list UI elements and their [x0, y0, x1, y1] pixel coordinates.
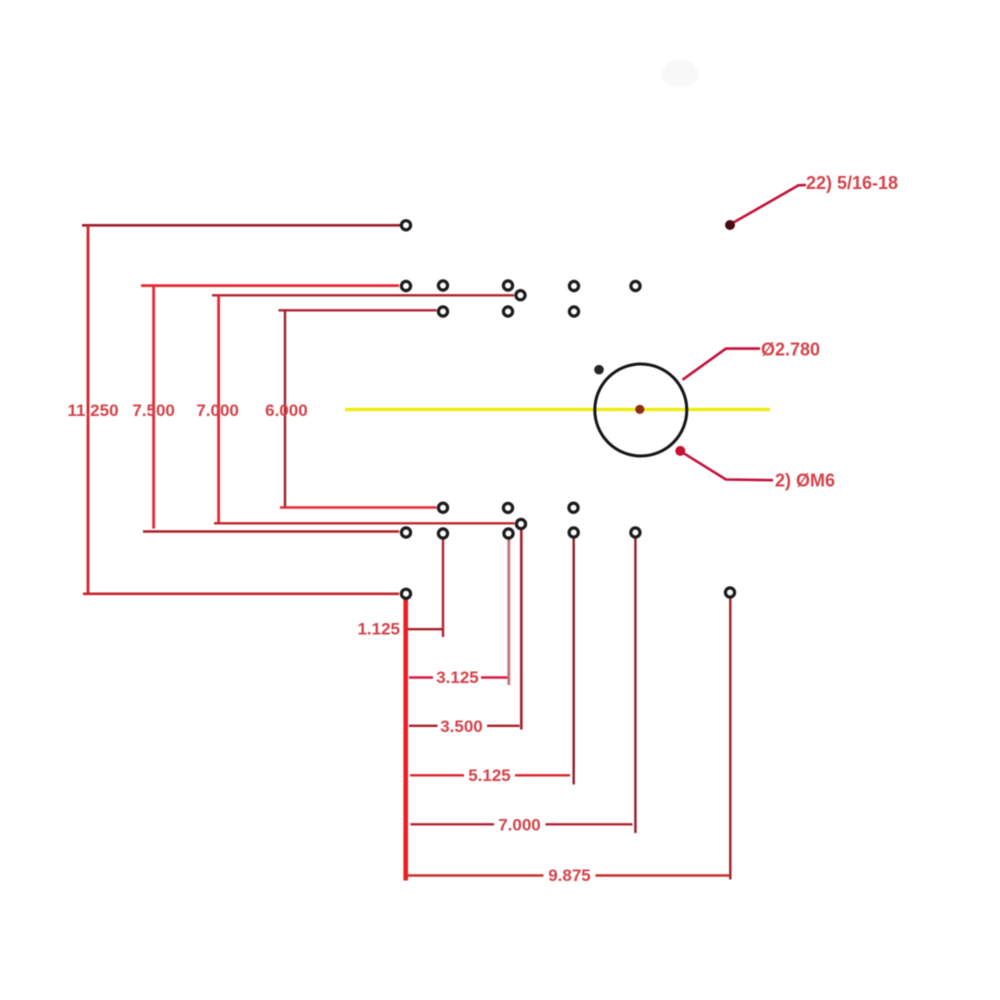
svg-text:2) ØM6: 2) ØM6 [775, 471, 835, 491]
bore center dot [635, 405, 644, 414]
dimension 5.125 left segment wire [410, 774, 464, 776]
svg-text:7.500: 7.500 [132, 401, 175, 420]
hole circle row E x508 [503, 503, 512, 512]
dimension 3.125 left segment wire [409, 676, 433, 678]
leader for 22) 5/16-18 [734, 185, 807, 223]
dimension 7.500 bottom horizontal wire [143, 530, 399, 533]
faint smudge top center [662, 60, 698, 88]
hole circle row F x573 [569, 528, 578, 537]
dimension 7.000-left top horizontal wire [212, 294, 514, 296]
hole circle row D x508 [503, 307, 512, 316]
dimension 11.250 vertical wire [87, 225, 90, 594]
bore circle (Ø2.780) [595, 364, 687, 456]
hole circle row F x443 [438, 529, 447, 538]
svg-text:7.000: 7.000 [196, 401, 239, 420]
dimension 7.000 left segment wire [411, 823, 495, 825]
hole circle row B x443 [438, 281, 447, 290]
chain vertical x730 wire [729, 598, 731, 880]
hole circle row F x406 [401, 528, 410, 537]
dimension 6.000 bottom horizontal wire [280, 506, 437, 509]
dimension 1.125 wire [408, 628, 443, 630]
dimension 7.000-left bottom horizontal wire [214, 522, 515, 524]
hole circle row E x443 [438, 503, 447, 512]
chain vertical x521 wire [520, 530, 523, 730]
hole circle row B x406 [401, 281, 410, 290]
yellow centerline [345, 408, 770, 411]
svg-text:3.125: 3.125 [436, 668, 479, 687]
hole circle 7.000 top end [516, 291, 525, 300]
dimension 7.000 right segment wire [546, 823, 633, 825]
hole circle 11.250 top end [401, 221, 410, 230]
svg-text:1.125: 1.125 [357, 620, 400, 639]
dimension 7.500 vertical wire [152, 286, 155, 529]
dimension 9.875 left segment wire [407, 874, 544, 876]
hole circle row F x635 [631, 528, 640, 537]
hole circle row E x573 [569, 503, 578, 512]
dimension 6.000 vertical wire [284, 310, 286, 507]
dimension 7.500 top horizontal wire [141, 284, 399, 287]
hole circle row B x508 [503, 281, 512, 290]
dimension 3.500 right segment wire [487, 725, 520, 727]
svg-text:11.250: 11.250 [67, 401, 118, 420]
svg-text:Ø2.780: Ø2.780 [761, 340, 820, 360]
dimension 6.000 top horizontal wire [279, 309, 437, 311]
hole circle row B x574 [569, 281, 578, 290]
svg-text:7.000: 7.000 [498, 815, 541, 834]
leader target dot 5/16-18 [725, 220, 735, 230]
leader for Ø2.780 [683, 349, 761, 380]
hole circle 11.250 bottom end [401, 589, 410, 598]
svg-text:22) 5/16-18: 22) 5/16-18 [806, 173, 898, 193]
leader for 2) ØM6 [683, 453, 773, 480]
chain vertical x443 wire [442, 539, 444, 637]
hole circle row D x443 [438, 307, 447, 316]
chain thick vertical x406 wire [403, 599, 408, 881]
hole circle row F x508 [504, 529, 513, 538]
svg-text:6.000: 6.000 [265, 401, 308, 420]
dimension 11.250 top horizontal wire [82, 224, 400, 227]
chain vertical x573 wire [573, 538, 575, 785]
small black dot near bore [594, 365, 604, 375]
dimension 3.500 left segment wire [409, 725, 438, 727]
dimension 9.875 right segment wire [596, 874, 730, 876]
hole circle 7.000 bottom end [516, 519, 525, 528]
dimension 7.000-left vertical wire [217, 295, 220, 523]
svg-text:5.125: 5.125 [468, 766, 511, 785]
chain vertical x508 wire [507, 539, 510, 685]
hole circle row B x635 [631, 281, 640, 290]
hole circle 9.875 top end [725, 588, 734, 597]
dimension 11.250 bottom horizontal wire [83, 592, 399, 595]
leader target dot M6 [675, 446, 685, 456]
dimension 3.125 right segment wire [481, 676, 508, 678]
dimension 5.125 right segment wire [515, 774, 570, 776]
svg-text:9.875: 9.875 [548, 866, 591, 885]
chain vertical x635 wire [634, 538, 636, 833]
svg-text:3.500: 3.500 [440, 717, 483, 736]
hole circle row D x574 [569, 307, 578, 316]
